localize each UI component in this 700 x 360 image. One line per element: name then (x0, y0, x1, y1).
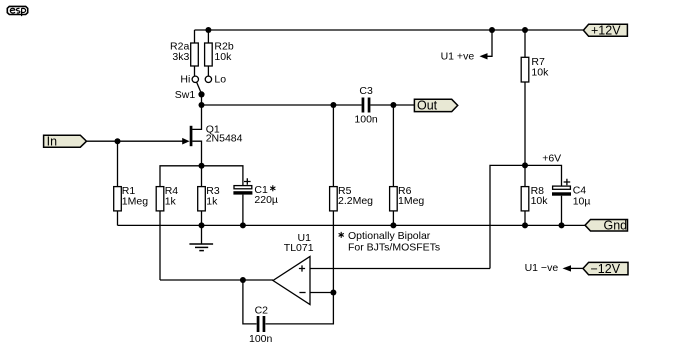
svg-text:100n: 100n (354, 114, 378, 126)
node R3 ground junction (199, 222, 205, 228)
svg-text:1Meg: 1Meg (122, 196, 148, 208)
transistor Q1 source lead (192, 141, 201, 166)
switch contact Lo (205, 76, 211, 82)
svg-text:10k: 10k (531, 66, 549, 78)
label R1 value (122, 185, 148, 207)
wire inverting input (310, 292, 333, 294)
wire R2a bottom lead (194, 66, 196, 76)
label R4 value (165, 185, 179, 207)
svg-text:TL071: TL071 (284, 242, 314, 254)
capacitor C1 plus sign (244, 178, 251, 185)
label note asterisk (339, 232, 344, 238)
wire R1 top lead (117, 141, 119, 186)
wire In to gate (87, 140, 183, 142)
capacitor C4 top plate (553, 186, 571, 189)
label C2 value (249, 305, 273, 346)
wire R3 bottom lead (201, 211, 203, 226)
wire R8 bottom lead (524, 211, 526, 226)
node C3 right junction (390, 102, 396, 108)
label R2b value (214, 41, 233, 63)
resistor R6 (390, 187, 398, 211)
wire C1 bottom lead (242, 195, 244, 226)
wire C4 bottom lead (561, 196, 563, 226)
label C1 value (254, 184, 278, 206)
node +6V junction (522, 162, 528, 168)
svg-text:10k: 10k (531, 195, 549, 207)
tag +12V (583, 24, 627, 36)
node feedback junction (240, 277, 246, 283)
label R2a value (170, 41, 189, 63)
svg-text:For BJTs/MOSFETs: For BJTs/MOSFETs (348, 241, 440, 253)
svg-text:+12V: +12V (591, 23, 621, 37)
label R6 value (398, 185, 424, 207)
node C1 ground junction (240, 222, 246, 228)
svg-text:3k3: 3k3 (172, 51, 189, 63)
node Sw1 pole (198, 91, 204, 97)
svg-text:Sw1: Sw1 (175, 89, 196, 101)
svg-text:C4: C4 (573, 184, 587, 196)
svg-text:+6V: +6V (542, 153, 561, 165)
tag Gnd (585, 220, 628, 232)
node R8 ground junction (522, 222, 528, 228)
wire +12V rail (195, 29, 584, 31)
label R8 value (531, 185, 549, 207)
node drain junction (199, 102, 205, 108)
label R3 value (206, 185, 220, 207)
wire Sw1 to drain node (201, 94, 203, 105)
wire C3 to Out (370, 104, 414, 106)
wire R8 top lead (524, 165, 526, 186)
wire +6V rail (490, 165, 562, 268)
label U1 (284, 232, 314, 254)
wire mid rail to C3 (202, 104, 362, 106)
wire drain vertical (192, 105, 201, 129)
svg-text:1k: 1k (206, 196, 218, 208)
ground (189, 225, 213, 250)
svg-text:100n: 100n (249, 333, 273, 345)
resistor R2a (191, 43, 199, 66)
capacitor C4 plus sign (564, 179, 571, 186)
wire R2b top lead (207, 30, 209, 43)
tag -12V (583, 262, 628, 274)
label R7 value (531, 56, 549, 78)
op-amp U1 (273, 257, 310, 305)
tag In (44, 135, 87, 147)
svg-text:10k: 10k (214, 51, 232, 63)
op-amp U1 minus input mark (299, 292, 305, 294)
node R6 ground junction (390, 222, 396, 228)
label C1 optional asterisk (270, 185, 275, 191)
wire R7 bottom lead (524, 82, 526, 165)
svg-text:1k: 1k (165, 196, 177, 208)
wire feedback rail (160, 279, 273, 281)
label C3 value (354, 85, 378, 126)
wire R6 top lead (392, 105, 394, 187)
capacitor C2 (257, 316, 266, 332)
transistor Q1 channel bar (190, 126, 193, 146)
wire inverting to C2 (266, 293, 334, 324)
label optionally bipolar note (348, 230, 440, 253)
svg-text:In: In (47, 134, 57, 148)
svg-text:220µ: 220µ (254, 194, 278, 206)
label C4 value (573, 184, 591, 207)
wire R7 top lead (524, 30, 526, 57)
arrowhead U1 -ve (563, 265, 572, 271)
resistor R5 (330, 187, 338, 211)
svg-text:2N5484: 2N5484 (206, 133, 243, 145)
resistor R7 (521, 57, 529, 82)
capacitor C1 bottom plate (233, 191, 252, 194)
wire C2 to feedback node (243, 280, 257, 324)
wire non-inverting input to +6V (310, 268, 490, 270)
wire R5 bottom to inverting input (332, 211, 334, 293)
wire R1 bottom lead (117, 211, 119, 226)
switch Sw1 wiper (197, 82, 202, 93)
svg-text:U1 +ve: U1 +ve (441, 51, 475, 63)
arrowhead U1 +ve (480, 53, 488, 59)
wire -12V tag lead (571, 267, 583, 269)
wire R5 top lead (332, 105, 334, 187)
svg-text:1Meg: 1Meg (398, 195, 424, 207)
capacitor C4 bottom plate (552, 192, 571, 195)
svg-text:C3: C3 (359, 85, 373, 97)
resistor R2b (205, 43, 213, 66)
wire R4 bottom to feedback (159, 211, 161, 280)
svg-text:10µ: 10µ (573, 196, 591, 208)
label R5 value (338, 185, 373, 207)
capacitor C1 top plate (234, 186, 252, 189)
node R2b/rail junction (205, 27, 211, 33)
wire U1 +ve supply pointer (487, 30, 493, 56)
node source junction (199, 163, 205, 169)
node input junction (115, 138, 121, 144)
wire R2a top lead (194, 30, 196, 43)
tag Out (414, 99, 457, 111)
svg-text:Out: Out (417, 99, 438, 113)
resistor R3 (198, 187, 206, 211)
node C3 left junction (330, 102, 336, 108)
capacitor C3 (362, 98, 371, 113)
svg-text:C2: C2 (255, 305, 269, 317)
svg-text:U1 −ve: U1 −ve (525, 262, 559, 274)
svg-text:Hi: Hi (180, 74, 190, 86)
svg-text:2.2Meg: 2.2Meg (338, 195, 373, 207)
resistor R1 (114, 187, 122, 211)
switch contact Hi (192, 76, 198, 82)
svg-text:Gnd: Gnd (604, 218, 628, 232)
resistor R8 (521, 187, 529, 211)
wire R6 bottom lead (392, 211, 394, 226)
node U1 +ve rail junction (489, 27, 495, 33)
node C4 ground junction (559, 222, 565, 228)
op-amp U1 plus input mark (299, 265, 305, 271)
svg-text:−12V: −12V (591, 262, 621, 276)
wire ground rail (118, 224, 586, 226)
wire R3 top lead (201, 166, 203, 187)
node R7 rail junction (522, 27, 528, 33)
svg-text:Lo: Lo (214, 74, 226, 86)
wire R2b bottom lead (207, 66, 209, 76)
transistor Q1 gate arrowhead (182, 138, 189, 145)
wire source rail (160, 166, 243, 187)
label Q1 (206, 123, 243, 144)
resistor R4 (156, 187, 164, 211)
esp logo (7, 6, 27, 16)
node inverting input junction (330, 290, 336, 296)
